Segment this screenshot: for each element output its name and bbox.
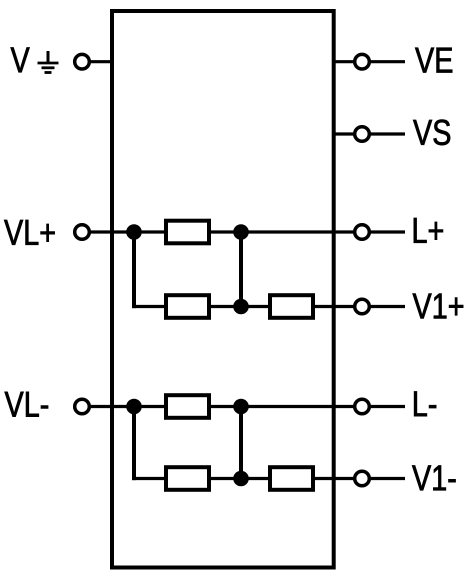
wire: V1- terminal to V1- label xyxy=(371,477,406,480)
wire: node E down to node F xyxy=(239,407,243,479)
terminal: V ground input xyxy=(75,54,90,69)
wire: VE terminal to VE label xyxy=(371,60,406,63)
node E junction xyxy=(233,399,249,415)
wire: body right edge to VE terminal xyxy=(334,60,354,63)
terminal: L- output xyxy=(355,399,370,414)
node B junction xyxy=(233,224,249,240)
node C junction xyxy=(233,299,249,315)
label V (functional earth input) xyxy=(11,48,30,73)
wire: V-ground terminal to body left edge xyxy=(90,60,113,63)
terminal: L+ output xyxy=(355,225,370,240)
terminal: VE output xyxy=(355,54,370,69)
wire: V1- branch corner right to V1- terminal xyxy=(132,477,354,480)
wire: V1+ branch corner right to V1+ terminal xyxy=(132,305,354,308)
resistor R4 (VL- to L- path) xyxy=(166,395,209,418)
wire: node A down to V1+ branch corner xyxy=(132,232,136,308)
terminal: V1- output xyxy=(355,471,370,486)
wire: VS terminal to VS label xyxy=(371,132,406,135)
label VL+ xyxy=(4,220,54,245)
label V1+ xyxy=(413,294,463,319)
label L- xyxy=(414,391,436,416)
resistor R3 (V1+ branch, right) xyxy=(270,295,313,318)
resistor R2 (V1+ branch, left) xyxy=(166,295,209,318)
wire: body right edge to VS terminal xyxy=(334,132,354,135)
resistor R1 (VL+ to L+ path) xyxy=(166,221,209,244)
label L+ xyxy=(414,218,443,243)
terminal: VL- input xyxy=(75,399,90,414)
wire: L- terminal to L- label xyxy=(371,405,406,408)
terminal: VS output xyxy=(355,127,370,142)
wire: L+ terminal to L+ label xyxy=(371,230,406,233)
wire: node D down to V1- branch corner xyxy=(132,407,136,481)
terminal: V1+ output xyxy=(355,299,370,314)
wire: VL+ terminal through body to L+ terminal xyxy=(90,230,354,233)
node A junction xyxy=(126,224,142,240)
resistor R5 (V1- branch, left) xyxy=(166,467,209,490)
node D junction xyxy=(126,399,142,415)
resistor R6 (V1- branch, right) xyxy=(270,467,313,490)
wire: VL- terminal through body to L- terminal xyxy=(90,405,354,408)
module body outline xyxy=(112,11,334,568)
label VL- xyxy=(5,392,48,417)
node F junction xyxy=(233,471,249,487)
wire: node B down to node C xyxy=(239,232,243,307)
label VS xyxy=(413,120,450,145)
label VE xyxy=(415,48,452,73)
terminal: VL+ input xyxy=(75,225,90,240)
label V1- xyxy=(412,466,455,491)
ground symbol xyxy=(38,51,59,73)
wire: V1+ terminal to V1+ label xyxy=(371,305,406,308)
